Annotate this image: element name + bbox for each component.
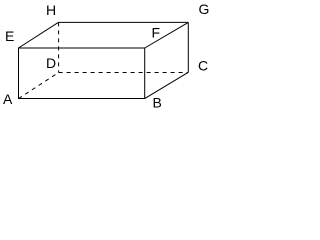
wire edge H-G (back top) bbox=[58, 21, 188, 23]
svg-text:B: B bbox=[153, 95, 162, 111]
wire edge E-H (top left diagonal) bbox=[19, 22, 59, 48]
wire edge F-G (top right diagonal) bbox=[145, 22, 189, 48]
svg-text:E: E bbox=[5, 28, 14, 44]
svg-text:D: D bbox=[46, 55, 56, 71]
wire edge G-C (back right) bbox=[187, 22, 189, 72]
wire edge A-E (front left) bbox=[18, 48, 20, 99]
wire edge D-C hidden (dashed bottom back) bbox=[59, 72, 189, 74]
svg-text:H: H bbox=[46, 2, 56, 18]
wire edge D-H hidden (dashed back left) bbox=[58, 22, 60, 72]
svg-text:G: G bbox=[199, 1, 210, 17]
wire edge B-F (front right) bbox=[144, 48, 146, 99]
svg-text:C: C bbox=[198, 58, 208, 74]
wire edge B-C (bottom right diagonal) bbox=[145, 72, 189, 98]
wire edge A-B (front bottom) bbox=[18, 98, 145, 100]
svg-text:F: F bbox=[152, 25, 161, 41]
svg-text:A: A bbox=[3, 91, 13, 107]
wire edge E-F (front top) bbox=[18, 47, 145, 49]
wire edge A-D hidden (dashed diagonal) bbox=[19, 73, 59, 99]
